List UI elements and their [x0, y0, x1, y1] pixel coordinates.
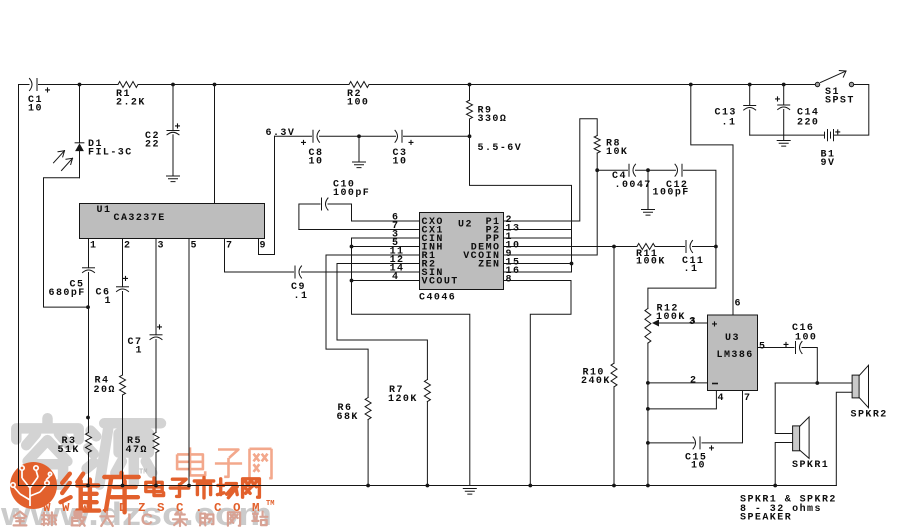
junction node: U3 power column on bus	[689, 83, 693, 87]
wire: left rail C1 to bottom bus	[18, 85, 20, 486]
wire: C2 to ground	[172, 135, 174, 176]
capacitor C15	[693, 437, 696, 449]
resistor R9	[469, 85, 471, 101]
junction node: bus x=529.8	[528, 484, 532, 488]
capacitor C8	[312, 130, 314, 142]
photodiode D1	[79, 85, 81, 143]
junction node: speaker line	[815, 381, 819, 385]
wire: bottom ground bus	[19, 485, 837, 487]
junction node: bus x=367.6	[366, 484, 370, 488]
resistor R1	[118, 82, 138, 88]
svg-text:5: 5	[759, 342, 766, 353]
capacitor C16	[795, 342, 797, 354]
wire: SPKR1 bottom terminal to bus	[775, 443, 792, 486]
svg-text:C4046: C4046	[419, 293, 456, 304]
svg-text:SPST: SPST	[825, 96, 855, 107]
resistor R7	[424, 380, 430, 402]
svg-text:4: 4	[718, 393, 725, 404]
wire: U2 pin 15 ZEN	[504, 263, 572, 265]
svg-text:220: 220	[797, 118, 819, 129]
junction node: C14 on bus	[782, 83, 786, 87]
svg-text:3: 3	[158, 241, 165, 252]
svg-text:100: 100	[795, 333, 817, 344]
op-amp U1 CA3237E body	[80, 204, 265, 239]
svg-text:.1: .1	[722, 118, 737, 129]
capacitor C7	[150, 334, 162, 336]
wire: +V top bus left section	[19, 84, 30, 86]
svg-text:1: 1	[105, 296, 112, 307]
wire: top bus R1 to R2	[138, 84, 349, 86]
speaker SPKR1	[793, 426, 800, 451]
svg-text:100: 100	[347, 98, 369, 109]
wire: U3 pin 6 supply from bus	[691, 85, 733, 316]
wire: C4 row	[597, 169, 627, 171]
svg-text:.1: .1	[684, 264, 699, 275]
resistor R5	[153, 433, 159, 453]
svg-text:9V: 9V	[821, 158, 836, 169]
svg-text:+: +	[157, 324, 164, 335]
svg-text:+: +	[45, 87, 52, 98]
junction node: R3 top	[86, 416, 90, 420]
resistor R10	[613, 247, 615, 364]
watermark: bottom row quan-qiu-zui-da-IC-cai-gou-wang-zhan	[14, 510, 268, 529]
capacitor C9	[294, 266, 296, 278]
watermark: red characters wei-ku	[61, 473, 139, 513]
audio amp U3 LM386 body	[708, 315, 758, 391]
svg-text:SPEAKER: SPEAKER	[740, 513, 792, 524]
junction node: bus x=155.5	[154, 484, 158, 488]
svg-text:1: 1	[136, 346, 143, 357]
R12 wiper arrow to U3 pin 3	[657, 322, 708, 324]
svg-text:240K: 240K	[581, 376, 611, 387]
svg-text:7: 7	[226, 241, 233, 252]
svg-text:2: 2	[690, 376, 697, 387]
junction node: bus x=87.5	[86, 484, 90, 488]
junction node: C5/D1	[86, 305, 90, 309]
wire: S1 to B1 positive	[834, 85, 869, 136]
wire: U2 pin 12 R2 to R7	[337, 264, 427, 380]
svg-text:2.2K: 2.2K	[116, 98, 146, 109]
svg-text:100K: 100K	[636, 257, 666, 268]
junction node: ground stub on 6.3V rail	[357, 134, 361, 138]
svg-text:+: +	[709, 445, 716, 456]
junction node: bus x=647.4	[646, 484, 650, 488]
junction node: U1 top on bus	[213, 83, 217, 87]
wire: U3 pin 7 to C15	[702, 391, 743, 443]
wire: 6.3V rail	[275, 135, 312, 137]
junction node: R9 column on bus	[468, 83, 472, 87]
svg-text:+: +	[408, 139, 415, 150]
junction node: R8/C4/VCOIN	[595, 168, 599, 172]
wire: SPKR2 bottom to bottom bus end	[836, 392, 852, 485]
capacitor C10 feedback loop	[299, 204, 320, 230]
junction node: bus x=426.9	[426, 484, 430, 488]
svg-text:+: +	[175, 123, 182, 134]
svg-text:4: 4	[392, 272, 399, 283]
wire: U2 pin 6 CXO	[352, 220, 420, 222]
svg-text:68K: 68K	[337, 412, 359, 423]
junction node: pin 4 row	[646, 407, 650, 411]
svg-text:U2: U2	[458, 220, 473, 231]
U1 pin 7 wire to C9	[225, 239, 294, 273]
svg-text:6: 6	[735, 299, 742, 310]
wire: CIN/INH/VCOUT ground column	[352, 238, 470, 486]
svg-text:+: +	[301, 139, 308, 150]
wire: top bus C1 to R1	[39, 84, 119, 86]
wire: U2 pin 2 P1 riser to R8	[504, 119, 598, 221]
potentiometer R12	[645, 308, 651, 343]
svg-text:U1: U1	[97, 205, 112, 216]
capacitor C4	[628, 164, 630, 176]
wire: U2 pin 16 supply	[504, 264, 572, 273]
wire: speaker line to SPKR2 top	[775, 382, 852, 384]
svg-text:.0047: .0047	[615, 180, 652, 191]
U1 pin 5 wire to ground bus	[188, 239, 190, 486]
svg-text:.1: .1	[294, 291, 309, 302]
junction node: INH on ground column	[350, 245, 354, 249]
svg-text:20Ω: 20Ω	[94, 385, 116, 396]
svg-text:10: 10	[393, 157, 408, 168]
wire: U2 pin 3 CIN	[352, 237, 420, 239]
PLL U2 C4046 body	[420, 213, 504, 290]
wire: U2 pin 1 PP	[504, 237, 572, 239]
watermark: big gray characters rong-yuan	[16, 418, 161, 484]
ground (below bottom bus)	[463, 489, 476, 495]
wire: D1 cathode jog to C5 bottom node	[44, 178, 89, 307]
svg-text:SPKR2: SPKR2	[851, 410, 888, 421]
svg-text:10: 10	[28, 104, 43, 115]
svg-text:5: 5	[191, 241, 198, 252]
svg-text:100pF: 100pF	[333, 188, 370, 199]
resistor R6	[365, 398, 371, 420]
svg-text:6.3V: 6.3V	[266, 128, 296, 139]
svg-text:IC: IC	[127, 510, 162, 529]
battery B1	[825, 130, 834, 141]
junction node: D1 column on bus	[78, 83, 82, 87]
junction node: C4/C12 ground stub	[646, 168, 650, 172]
svg-text:U3: U3	[725, 333, 740, 344]
resistor R2	[349, 82, 369, 88]
svg-text:8: 8	[506, 274, 513, 285]
capacitor C1	[30, 79, 33, 91]
svg-text:3: 3	[690, 317, 697, 328]
junction node: bus x=122	[121, 484, 125, 488]
wire: stub to ground	[647, 170, 649, 209]
capacitor C14	[783, 85, 785, 106]
svg-text:LM386: LM386	[717, 350, 754, 361]
U1 pin 3 wire to C7	[155, 239, 157, 335]
junction node: DEMO at C11/C12 column	[714, 245, 718, 249]
svg-text:22: 22	[145, 140, 160, 151]
resistor R8	[594, 136, 600, 154]
capacitor C2	[172, 85, 174, 131]
svg-text:+: +	[123, 275, 130, 286]
wire: U2 pin 7 CX1	[299, 229, 420, 231]
svg-text:TM: TM	[266, 500, 274, 508]
wire: C9 to U2 SIN pin 14	[302, 271, 420, 273]
ground (C4/C12)	[642, 210, 655, 216]
switch S1	[815, 82, 819, 86]
svg-text:+: +	[783, 341, 790, 352]
svg-text:10: 10	[309, 157, 324, 168]
speaker SPKR2	[852, 375, 859, 398]
svg-text:+: +	[835, 129, 842, 140]
svg-text:+: +	[712, 321, 719, 332]
svg-text:SPKR1: SPKR1	[792, 460, 829, 471]
wire: stub to ground	[358, 136, 360, 162]
junction node: 6.3V rail at R9 column	[468, 134, 472, 138]
U1 pin 2 wire to C6	[122, 239, 124, 287]
wire: U3 pin 5 output to C16	[758, 347, 795, 349]
wire: B1 negative to ground rail	[750, 134, 825, 136]
wire: U3 pin 4 to ground column	[648, 391, 717, 409]
svg-text:100K: 100K	[656, 312, 686, 323]
svg-text:680pF: 680pF	[49, 288, 86, 299]
light arrows into D1	[54, 151, 65, 163]
svg-text:7: 7	[744, 393, 751, 404]
junction node: bus x=188.5	[187, 484, 191, 488]
U1 pin 9 wire to 6.3V rail	[259, 136, 275, 254]
svg-text:5.5-6V: 5.5-6V	[478, 143, 523, 154]
junction node: bus x=613.5	[612, 484, 616, 488]
junction node: VCOUT on ground column	[350, 279, 354, 283]
junction node: ZEN supply	[570, 262, 574, 266]
wire: top bus R2 to S1	[369, 84, 815, 86]
capacitor C6	[117, 286, 129, 288]
wire: R9 to 5.5-6V node and ZEN riser	[470, 119, 572, 264]
wire: U2 pin 10 DEMO to R11	[504, 246, 637, 248]
wire: SPKR1 top terminal	[775, 383, 792, 434]
svg-text:330Ω: 330Ω	[478, 114, 508, 125]
wire: C15 to ground column	[648, 442, 694, 444]
capacitor C12	[675, 164, 678, 176]
wire: U2 pin 11 R1 to R6	[326, 255, 420, 398]
svg-text:CA3237E: CA3237E	[114, 213, 166, 224]
capacitor C3	[395, 130, 398, 142]
svg-text:47Ω: 47Ω	[126, 445, 148, 456]
capacitor C5	[83, 267, 95, 269]
junction node: R12 bottom / pin 2	[646, 381, 650, 385]
wire: U2 pin 5 INH	[352, 246, 420, 248]
wire: C12 to R12 top column	[648, 170, 716, 308]
junction node: bus x=774.7	[773, 484, 777, 488]
svg-text:FIL-3C: FIL-3C	[88, 148, 133, 159]
resistor R11	[637, 244, 655, 250]
svg-text:2: 2	[124, 241, 131, 252]
svg-text:120K: 120K	[388, 394, 418, 405]
ground (6.3V rail)	[353, 162, 366, 168]
junction node: DEMO at R10	[612, 245, 616, 249]
resistor R4	[120, 375, 126, 395]
svg-text:51K: 51K	[58, 445, 80, 456]
wire: C16 to speakers line	[802, 348, 817, 384]
resistor R3	[86, 433, 92, 453]
svg-text:1: 1	[90, 241, 97, 252]
capacitor C13	[749, 85, 751, 106]
capacitor C11	[685, 241, 687, 253]
junction node: C15 row	[646, 441, 650, 445]
svg-text:10K: 10K	[606, 147, 628, 158]
svg-text:TM: TM	[139, 469, 147, 477]
wire: U3 pin 2 inverting input	[648, 382, 708, 384]
svg-text:100pF: 100pF	[653, 188, 690, 199]
svg-text:9: 9	[260, 241, 267, 252]
wire: U2 pin 13 P2	[504, 229, 572, 231]
wire: U2 pin 9 VCOIN	[504, 170, 598, 255]
U1 pin 1 wire to C5	[88, 239, 90, 268]
svg-text:VCOUT: VCOUT	[422, 276, 459, 287]
watermark: salmon outline characters dian-zi-wang	[177, 447, 271, 478]
svg-text:10: 10	[691, 461, 706, 472]
svg-text:+: +	[775, 96, 782, 107]
svg-text:ZEN: ZEN	[478, 259, 500, 270]
ground (battery rail)	[783, 135, 785, 140]
watermark: red logo disc with circuit traces	[10, 462, 57, 509]
ground (C2)	[167, 176, 180, 182]
watermark: red characters dian-zi-shi-chang-wang	[146, 477, 260, 498]
wire: U2 pin 8 to ground bus	[504, 281, 572, 486]
wire: bus to U1 top	[214, 85, 216, 204]
junction node: C2 column on bus	[171, 83, 175, 87]
wire: U2 pin 4 VCOUT	[352, 280, 420, 282]
junction node: C13 on bus	[748, 83, 752, 87]
